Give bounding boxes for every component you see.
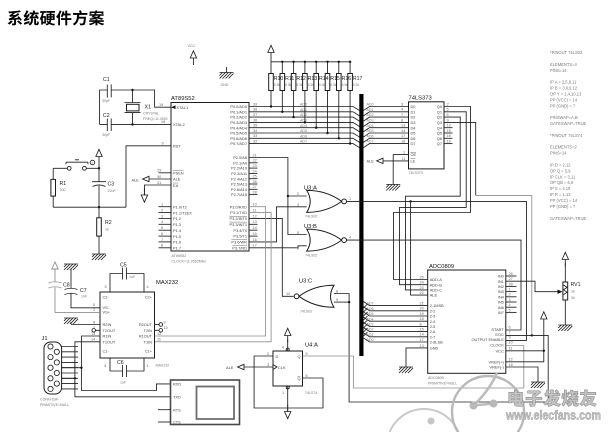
svg-text:19: 19 <box>159 103 163 107</box>
svg-text:P2.7/A15: P2.7/A15 <box>231 192 247 197</box>
svg-text:AD3: AD3 <box>367 119 374 123</box>
wire IN2 stub <box>506 285 517 287</box>
svg-text:PP (GND) = 7: PP (GND) = 7 <box>550 204 576 209</box>
svg-text:CONN-D9F: CONN-D9F <box>40 398 59 402</box>
svg-text:5: 5 <box>509 308 511 312</box>
svg-text:P0.2/AD2: P0.2/AD2 <box>230 115 247 120</box>
pin 2-1MSB (ADC) <box>420 302 445 309</box>
wire J1 pin 3 stub <box>62 356 78 358</box>
svg-text:25: 25 <box>253 175 257 179</box>
wire Q4 stub <box>444 127 453 129</box>
pin J1-2 hole <box>54 349 59 354</box>
svg-text:3: 3 <box>509 298 511 302</box>
svg-text:16: 16 <box>253 238 257 242</box>
pin XTAL2 <box>161 120 185 127</box>
note PINOUT text block <box>550 50 587 221</box>
wire vcc to button row <box>53 164 99 169</box>
svg-text:1uF: 1uF <box>120 381 127 385</box>
svg-text:P3.1/TXD: P3.1/TXD <box>230 210 247 215</box>
svg-text:Q4: Q4 <box>437 125 443 130</box>
svg-text:5: 5 <box>297 231 299 235</box>
ground GND (top) <box>220 67 234 87</box>
svg-text:R1OUT: R1OUT <box>139 334 153 339</box>
power VCC (U4 PRE) <box>285 328 291 351</box>
pin GND (ADC) <box>420 344 439 351</box>
svg-text:CLOCK=11.0592MHz: CLOCK=11.0592MHz <box>172 260 207 264</box>
svg-text:22: 22 <box>420 291 424 295</box>
pin 2-7 (ADC) <box>420 333 436 340</box>
svg-text:D2: D2 <box>411 115 416 120</box>
svg-text:AD4: AD4 <box>367 124 374 128</box>
pin OE (373) <box>393 150 416 157</box>
svg-text:35: 35 <box>253 124 257 128</box>
svg-text:R2IN: R2IN <box>103 322 112 327</box>
capacitor C6 <box>104 358 149 385</box>
wire IN6 stub <box>506 306 517 308</box>
svg-text:www.elecfans.com: www.elecfans.com <box>505 409 601 423</box>
svg-text:D6: D6 <box>411 136 416 141</box>
svg-text:GATESWAP=TRUE: GATESWAP=TRUE <box>550 216 587 221</box>
svg-text:PP (GND) = 7: PP (GND) = 7 <box>550 103 576 108</box>
svg-text:13: 13 <box>420 344 424 348</box>
svg-text:*PINOUT 74LS74: *PINOUT 74LS74 <box>550 133 583 138</box>
svg-text:5: 5 <box>447 108 449 112</box>
svg-text:AD3: AD3 <box>367 323 374 327</box>
svg-text:AT89S52: AT89S52 <box>172 254 187 258</box>
pin XTAL1 <box>159 103 188 110</box>
pin VREF(-) (ADC) <box>490 363 513 370</box>
node rail R14 <box>315 61 317 63</box>
svg-text:6: 6 <box>447 113 449 117</box>
svg-text:AD0: AD0 <box>300 103 307 107</box>
svg-text:R2OUT: R2OUT <box>139 322 153 327</box>
wire U3:C pin8 tie <box>334 294 349 303</box>
wire Q7 stub <box>444 143 453 145</box>
svg-text:T2IN: T2IN <box>144 328 153 333</box>
svg-text:10: 10 <box>164 326 168 330</box>
terminal ALE (U4 clk) <box>226 364 273 370</box>
pin P2.0 <box>233 153 257 160</box>
svg-text:9: 9 <box>447 118 449 122</box>
svg-text:GND: GND <box>430 346 439 351</box>
svg-text:8: 8 <box>74 380 76 384</box>
wire bus to ADC 2-3 <box>363 312 428 316</box>
svg-text:P0.4/AD4: P0.4/AD4 <box>230 125 247 130</box>
svg-text:30pF: 30pF <box>102 133 111 137</box>
svg-text:EA: EA <box>173 183 179 188</box>
svg-text:74LS02: 74LS02 <box>305 215 317 219</box>
svg-text:26: 26 <box>509 272 513 276</box>
svg-text:15: 15 <box>420 328 424 332</box>
svg-text:17: 17 <box>253 244 257 248</box>
node rail R13 <box>304 61 306 63</box>
pin IN5 (ADC) <box>498 298 511 305</box>
svg-text:P3.2/INT0: P3.2/INT0 <box>229 216 247 221</box>
gate U3:B 74LS02 <box>297 224 351 258</box>
svg-text:14: 14 <box>253 226 257 230</box>
svg-text:AD2: AD2 <box>367 113 374 117</box>
wire P0.5 to bus <box>249 133 360 137</box>
pin EA <box>157 181 179 188</box>
watermark logo dots <box>470 402 478 410</box>
svg-text:ALE: ALE <box>173 177 181 182</box>
pin P0.1/AD1 <box>230 108 257 115</box>
node J1 pin5 junction <box>80 367 82 369</box>
svg-text:15: 15 <box>447 129 451 133</box>
watermark logo circle <box>452 376 524 432</box>
svg-text:D1: D1 <box>411 109 416 114</box>
wire P0.4 to bus <box>249 128 360 132</box>
svg-text:AD6: AD6 <box>367 134 374 138</box>
svg-text:U3:B: U3:B <box>304 224 317 230</box>
svg-text:R10: R10 <box>274 76 284 82</box>
svg-text:18: 18 <box>161 120 165 124</box>
wire bus to ADC 2-4 <box>363 317 428 321</box>
svg-text:10: 10 <box>253 203 257 207</box>
svg-text:TXD: TXD <box>173 395 181 400</box>
pin Q2 <box>437 113 449 120</box>
svg-text:Q: Q <box>297 376 300 381</box>
pin T1IN <box>144 338 161 345</box>
svg-text:AD1: AD1 <box>367 108 374 112</box>
svg-text:21: 21 <box>420 302 424 306</box>
wire bus to D0 <box>363 107 408 111</box>
svg-text:R15: R15 <box>330 76 340 82</box>
wire P2.6 stub <box>249 188 258 190</box>
svg-text:36: 36 <box>253 118 257 122</box>
svg-text:U4:A: U4:A <box>305 343 318 349</box>
pin J1-1 hole <box>48 344 53 349</box>
node AD6 pull-up <box>338 137 340 139</box>
svg-text:9: 9 <box>509 336 511 340</box>
wire bus to ADC 2-7 <box>363 333 428 337</box>
svg-text:11: 11 <box>253 209 257 213</box>
svg-text:39: 39 <box>253 102 257 106</box>
connector J1 CONN-D9F <box>40 336 69 407</box>
wire pull-up top rail <box>271 60 350 62</box>
pin P1.3 <box>159 220 182 227</box>
svg-text:AD2: AD2 <box>300 113 307 117</box>
wire P3.0 to R1OUT (gray) <box>155 207 266 336</box>
wire bus to D4 <box>363 128 408 132</box>
pin P3.3 <box>229 220 256 227</box>
svg-text:33: 33 <box>253 134 257 138</box>
node C3/R2 junction <box>98 206 100 208</box>
svg-text:17: 17 <box>420 338 424 342</box>
wire P3.4 stub <box>249 229 258 231</box>
node EOC tap <box>531 334 533 336</box>
svg-text:P1.7: P1.7 <box>173 246 181 251</box>
wire bus to ADC 2-6 <box>363 327 428 331</box>
button (reset switch) <box>66 160 95 170</box>
svg-text:AD5: AD5 <box>367 312 374 316</box>
resistor R13 <box>303 62 318 123</box>
svg-text:IP D = 2,12: IP D = 2,12 <box>550 163 571 168</box>
wire IN1 to RV1 wiper <box>506 281 558 292</box>
svg-text:3: 3 <box>401 102 403 106</box>
pin P0.5/AD5 <box>230 129 257 136</box>
svg-text:5.3k: 5.3k <box>319 83 325 87</box>
svg-text:2: 2 <box>447 102 449 106</box>
wire EA to power-down arrow <box>144 185 171 196</box>
svg-text:VS+: VS+ <box>103 309 111 314</box>
pin D3 <box>401 118 415 125</box>
power VCC (reset) <box>96 149 102 163</box>
svg-text:27: 27 <box>253 185 257 189</box>
svg-text:13: 13 <box>401 124 405 128</box>
svg-text:8: 8 <box>93 320 95 324</box>
pin P3.5 <box>233 232 256 239</box>
wire IN7 stub <box>506 311 517 313</box>
svg-text:RTS: RTS <box>173 408 181 413</box>
watermark logo secondary circle <box>387 409 461 432</box>
svg-text:12: 12 <box>253 214 257 218</box>
wire ADC GND to ground <box>406 348 428 367</box>
svg-text:R11: R11 <box>285 76 294 82</box>
svg-text:20: 20 <box>420 307 424 311</box>
svg-text:C1: C1 <box>103 77 110 83</box>
svg-text:P0.6/AD6: P0.6/AD6 <box>230 136 247 141</box>
gate U3:A 74LS02 <box>297 186 351 219</box>
pin ADD-C (ADC) <box>420 286 443 293</box>
power VCC (C8, gray) <box>52 262 58 272</box>
pin Q4 <box>437 124 451 131</box>
svg-text:U3:A: U3:A <box>304 186 317 192</box>
pin 2-2 (ADC) <box>420 307 436 314</box>
wire P3.6 to U3:A pin3 <box>249 207 307 242</box>
svg-text:P2.0/A8: P2.0/A8 <box>233 155 247 160</box>
svg-text:D5: D5 <box>411 131 416 136</box>
node rail R16 <box>338 61 340 63</box>
svg-text:C8: C8 <box>63 283 70 289</box>
node U3:C input tie <box>348 301 350 303</box>
pin P3.0 <box>230 203 257 210</box>
pin ADD-A (ADC) <box>420 275 443 282</box>
wire RST <box>126 146 171 207</box>
svg-text:P0.7/AD7: P0.7/AD7 <box>230 141 247 146</box>
pin P2.1 <box>233 159 257 166</box>
svg-text:5: 5 <box>161 226 163 230</box>
svg-text:CRYSTAL: CRYSTAL <box>143 112 159 116</box>
svg-text:14: 14 <box>401 129 405 133</box>
svg-text:3: 3 <box>297 203 299 207</box>
svg-text:74LS02: 74LS02 <box>300 310 312 314</box>
svg-text:D3: D3 <box>411 120 416 125</box>
svg-text:3: 3 <box>104 364 106 368</box>
svg-text:P2.2/A10: P2.2/A10 <box>231 166 248 171</box>
svg-text:23: 23 <box>420 286 424 290</box>
pin LE (373) <box>402 157 416 164</box>
svg-text:1: 1 <box>509 288 511 292</box>
svg-text:T2OUT: T2OUT <box>103 328 116 333</box>
title 系统硬件方案 <box>8 10 105 25</box>
pin ADD-B (ADC) <box>420 281 443 288</box>
svg-text:5.3k: 5.3k <box>285 83 291 87</box>
wire IN4 stub <box>506 296 517 298</box>
svg-text:IP R = 1,13: IP R = 1,13 <box>550 192 571 197</box>
pin ALE (ADC) <box>420 291 438 298</box>
pin VREF(+) (ADC) <box>489 358 513 365</box>
pin J1-8 hole <box>54 381 59 386</box>
svg-text:8: 8 <box>336 289 338 293</box>
capacitor C2 <box>102 113 111 137</box>
svg-text:4: 4 <box>349 236 351 240</box>
svg-text:3: 3 <box>267 363 269 367</box>
svg-text:1: 1 <box>403 150 405 154</box>
wire P3.1 to T1IN <box>155 213 272 342</box>
latch U2 74LS373 box <box>409 95 445 175</box>
svg-text:9: 9 <box>162 142 164 146</box>
pin P0.3/AD3 <box>230 118 257 125</box>
wire T1OUT to J1 and terminal TXD <box>62 342 171 397</box>
wire J1 pin 8 stub <box>62 383 78 385</box>
wire P0.6 to bus <box>249 138 360 142</box>
svg-text:6: 6 <box>297 247 299 251</box>
svg-text:XTAL1: XTAL1 <box>177 105 189 110</box>
svg-text:5.3k: 5.3k <box>296 83 302 87</box>
gate U3:C 74LS02 (mirrored) <box>286 279 338 314</box>
svg-text:11: 11 <box>402 157 406 161</box>
svg-text:19: 19 <box>447 140 451 144</box>
wire bus to D1 <box>363 112 408 116</box>
svg-text:1uF: 1uF <box>129 275 136 279</box>
svg-text:2-8LSB: 2-8LSB <box>430 340 443 345</box>
svg-text:5.3k: 5.3k <box>308 83 314 87</box>
pin P1.1 <box>159 209 193 216</box>
wire D feedback loop <box>254 356 323 408</box>
svg-text:U3:C: U3:C <box>299 279 312 285</box>
pin D7 <box>401 140 415 147</box>
svg-text:AD5: AD5 <box>300 129 307 133</box>
pot RV1 <box>558 263 581 325</box>
svg-text:IP CLK = 3,11: IP CLK = 3,11 <box>550 174 576 179</box>
svg-text:C6: C6 <box>117 360 124 366</box>
svg-text:2: 2 <box>509 293 511 297</box>
pin Q3 <box>437 118 449 125</box>
capacitor C3 (electrolytic) <box>92 168 116 207</box>
svg-text:ADC0809: ADC0809 <box>428 376 444 380</box>
svg-text:3: 3 <box>161 214 163 218</box>
pin T1OUT <box>91 338 116 345</box>
svg-text:2: 2 <box>74 348 76 352</box>
svg-text:P0.1/AD1: P0.1/AD1 <box>230 109 247 114</box>
pin P3.7 <box>232 244 256 251</box>
svg-text:AD7: AD7 <box>367 140 374 144</box>
svg-text:C3: C3 <box>108 182 115 188</box>
node U3:A pin2 tap <box>287 195 289 197</box>
svg-text:IP B = 3,6,9,12: IP B = 3,6,9,12 <box>550 86 578 91</box>
pin 2-6 (ADC) <box>420 328 436 335</box>
svg-text:6: 6 <box>509 325 511 329</box>
svg-text:12: 12 <box>447 124 451 128</box>
svg-text:8: 8 <box>161 244 163 248</box>
wire P2.7 stub <box>249 194 258 196</box>
svg-text:AD0: AD0 <box>367 338 374 342</box>
svg-text:6: 6 <box>306 374 308 378</box>
svg-text:P2.1/A9: P2.1/A9 <box>233 160 247 165</box>
pin P2.4 <box>231 175 257 182</box>
svg-text:AD2: AD2 <box>367 328 374 332</box>
watermark logo dot secondary <box>428 418 435 425</box>
svg-text:7: 7 <box>401 113 403 117</box>
svg-text:16: 16 <box>447 134 451 138</box>
pin 2-5 (ADC) <box>420 322 436 329</box>
wire U3:A pin2 <box>288 195 307 197</box>
pin IN1 (ADC) <box>498 277 513 284</box>
wire U3:B output to ADC START <box>345 240 522 330</box>
node crystal bottom junction <box>131 123 133 125</box>
resistor R2 <box>97 207 112 254</box>
svg-text:RXD: RXD <box>173 382 181 387</box>
svg-text:R1IN: R1IN <box>103 334 112 339</box>
svg-text:7: 7 <box>74 375 76 379</box>
pin 2-3 (ADC) <box>420 312 436 319</box>
svg-text:AD7: AD7 <box>300 140 307 144</box>
svg-text:*PINOUT 74LS02: *PINOUT 74LS02 <box>550 50 583 55</box>
pin D2 <box>401 113 415 120</box>
wire U3:A output to ADC OUTPUT ENABLE <box>345 201 527 340</box>
wire bus to ADC 2-8LSB <box>363 338 428 342</box>
pin VS- <box>93 303 110 310</box>
svg-text:74LS02: 74LS02 <box>305 254 317 258</box>
svg-text:P0.0/AD0: P0.0/AD0 <box>230 104 247 109</box>
svg-text:6: 6 <box>93 303 95 307</box>
svg-text:Q3: Q3 <box>437 120 442 125</box>
wire left rail C1/C2 <box>99 90 101 124</box>
svg-text:PINS=14: PINS=14 <box>550 68 567 73</box>
svg-text:1: 1 <box>161 203 163 207</box>
svg-text:P1.4: P1.4 <box>173 228 182 233</box>
svg-text:C2: C2 <box>103 113 110 119</box>
svg-text:D7: D7 <box>411 141 416 146</box>
node rail R15 <box>326 61 328 63</box>
pin Q6 <box>437 134 451 141</box>
svg-text:13: 13 <box>91 332 95 336</box>
pin RST <box>162 142 182 149</box>
wire VREF(-) to ground <box>506 367 538 382</box>
svg-text:OP Y = 1,4,10,13: OP Y = 1,4,10,13 <box>550 91 582 96</box>
svg-text:P0.3/AD3: P0.3/AD3 <box>230 120 247 125</box>
svg-text:74LS373: 74LS373 <box>409 171 423 175</box>
svg-text:P3.3/INT1: P3.3/INT1 <box>229 222 247 227</box>
node rail R11 <box>281 61 283 63</box>
pin OUTPUT ENABLE (ADC) <box>471 336 510 343</box>
wire J1 pin 4 stub <box>62 361 78 363</box>
svg-text:27: 27 <box>509 277 513 281</box>
svg-text:P3.7/RD: P3.7/RD <box>232 245 247 250</box>
svg-text:1k: 1k <box>571 290 575 294</box>
svg-text:AD4: AD4 <box>300 124 307 128</box>
wire P0.7 to bus <box>249 144 360 148</box>
svg-text:R13: R13 <box>308 76 318 82</box>
pin P0.6/AD6 <box>230 134 257 141</box>
svg-text:C2-: C2- <box>103 295 110 300</box>
svg-text:P3.5/T1: P3.5/T1 <box>233 234 247 239</box>
svg-text:OP QB = 6,8: OP QB = 6,8 <box>550 180 574 185</box>
pin P2.7 <box>231 191 257 198</box>
svg-text:AD4: AD4 <box>367 317 374 321</box>
svg-text:OP Q = 5,9: OP Q = 5,9 <box>550 168 571 173</box>
svg-text:5: 5 <box>306 352 308 356</box>
svg-text:P1.1/T2EX: P1.1/T2EX <box>173 210 192 215</box>
pin Q1 <box>437 108 449 115</box>
node AD2 pull-up <box>292 116 294 118</box>
svg-text:17: 17 <box>401 134 405 138</box>
flip-flop U4:A 74LS74 <box>267 343 318 396</box>
wire R1IN to J1 and terminal RXD <box>62 336 171 391</box>
svg-text:25: 25 <box>420 275 424 279</box>
pin J1-5 hole <box>48 365 53 370</box>
